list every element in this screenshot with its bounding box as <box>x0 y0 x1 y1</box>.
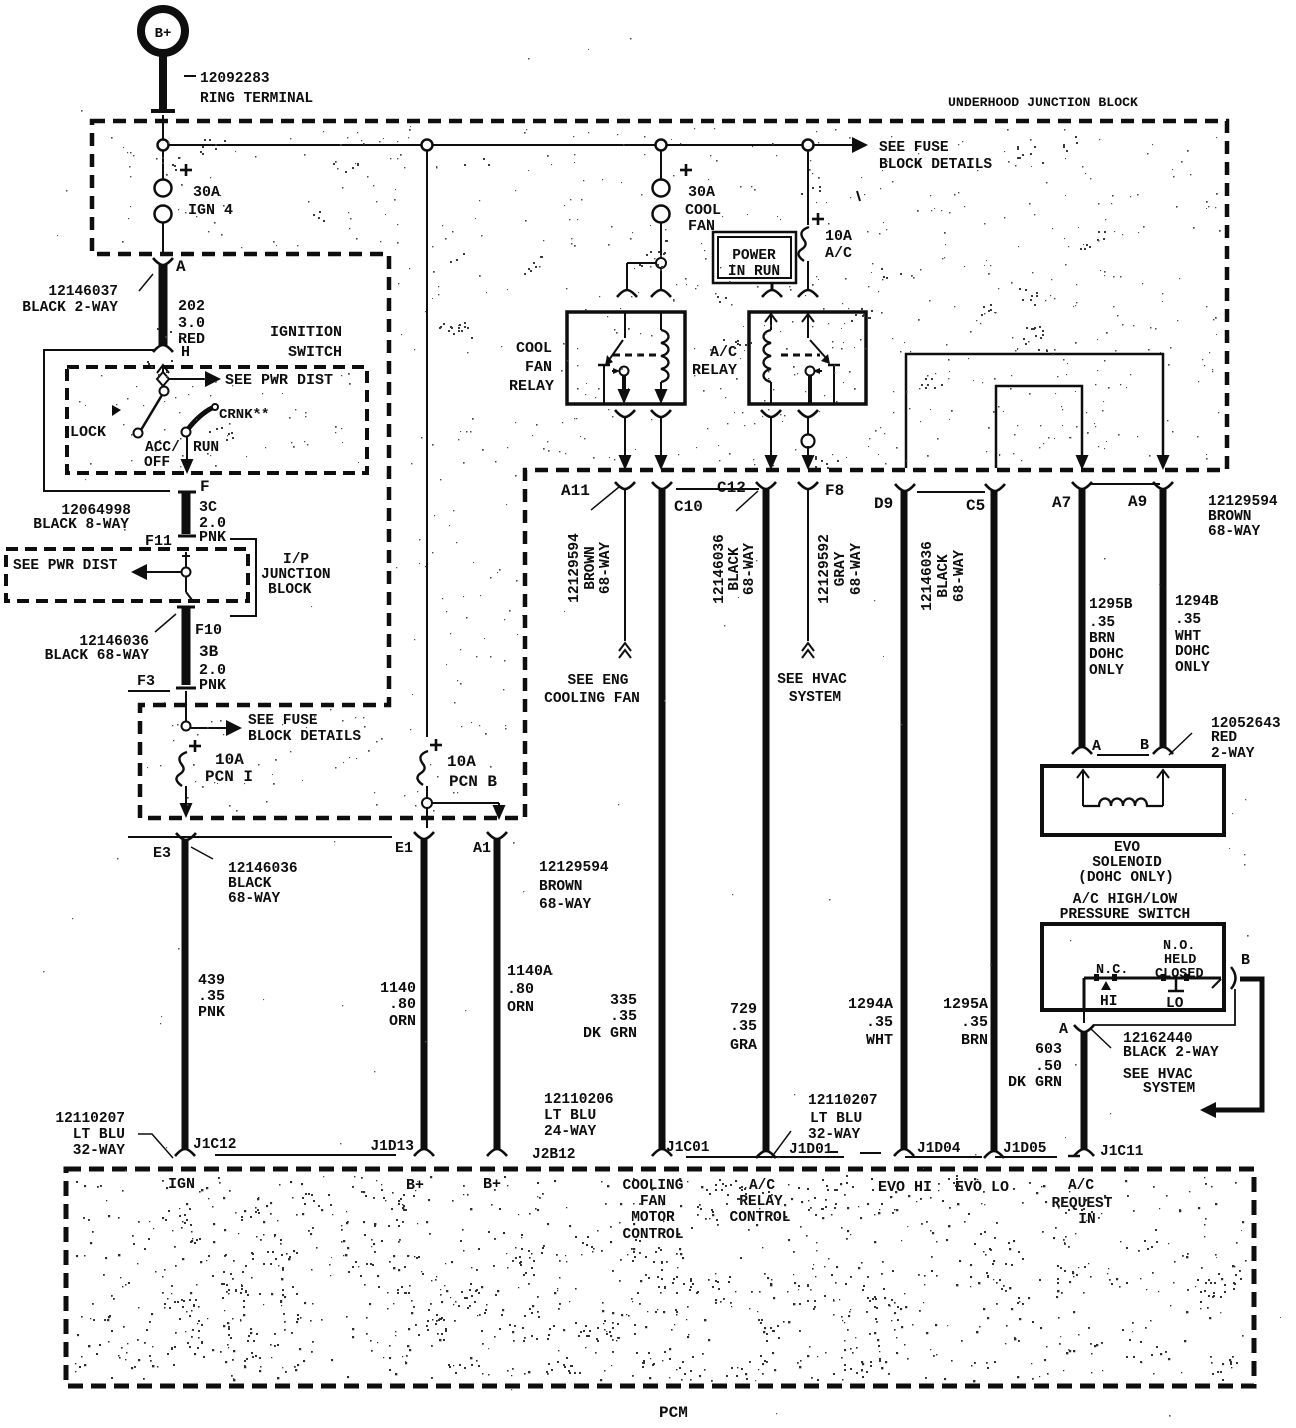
fuse 10A PCN B <box>430 744 442 747</box>
arrow SEE FUSE BLOCK DETAILS (PCN I) <box>191 727 226 729</box>
svg-text:1140: 1140 <box>380 980 416 997</box>
svg-text:EVO HI: EVO HI <box>878 1179 932 1196</box>
wire 603 .50 DK GRN <box>1081 1031 1088 1150</box>
connector E1 <box>414 832 434 839</box>
svg-text:.35: .35 <box>1175 612 1201 628</box>
svg-text:BLACK: BLACK <box>727 547 743 591</box>
svg-text:SEE FUSE: SEE FUSE <box>248 713 318 729</box>
wire 1295B BRN (A7) <box>1079 489 1086 748</box>
fuse 10A A/C <box>807 150 809 225</box>
svg-text:ORN: ORN <box>389 1013 416 1030</box>
svg-text:N.O.: N.O. <box>1163 939 1195 954</box>
contact ACC/OFF <box>134 429 143 438</box>
connector C5 <box>985 484 1005 491</box>
connector A9 <box>1153 482 1173 489</box>
EVO solenoid coil <box>1077 770 1089 778</box>
svg-text:JUNCTION: JUNCTION <box>261 567 331 583</box>
svg-text:J1C12: J1C12 <box>193 1137 237 1153</box>
svg-text:68-WAY: 68-WAY <box>598 542 614 595</box>
svg-text:LO: LO <box>1166 996 1184 1012</box>
svg-text:RED: RED <box>1211 730 1237 746</box>
connector A11 <box>615 482 635 489</box>
svg-text:12146036: 12146036 <box>228 861 298 877</box>
connector F8 <box>798 482 818 489</box>
svg-text:A11: A11 <box>561 482 590 500</box>
svg-text:68-WAY: 68-WAY <box>539 897 592 913</box>
svg-text:12110207: 12110207 <box>55 1111 125 1127</box>
svg-text:C5: C5 <box>966 497 985 515</box>
svg-text:SEE ENG: SEE ENG <box>568 673 629 689</box>
svg-text:2-WAY: 2-WAY <box>1211 746 1255 762</box>
fuse 10A PCN I <box>189 745 201 748</box>
svg-text:J1D04: J1D04 <box>917 1141 961 1157</box>
svg-text:SEE HVAC: SEE HVAC <box>777 672 847 688</box>
wire bus to PCN B fuse <box>426 150 428 737</box>
A/C high/low pressure switch box <box>1042 924 1224 1010</box>
svg-text:HI: HI <box>1100 994 1117 1010</box>
svg-text:1140A: 1140A <box>507 963 552 980</box>
node bus junction 3 <box>656 140 667 151</box>
svg-text:IGN: IGN <box>168 1176 195 1193</box>
svg-text:439: 439 <box>198 972 225 989</box>
svg-text:.50: .50 <box>1035 1058 1062 1075</box>
svg-text:32-WAY: 32-WAY <box>73 1143 126 1159</box>
svg-text:30A: 30A <box>688 184 715 201</box>
svg-text:RELAY: RELAY <box>692 362 737 379</box>
svg-text:MOTOR: MOTOR <box>631 1210 675 1226</box>
svg-text:RUN: RUN <box>193 440 219 456</box>
wire 1294B WHT (A9) <box>1160 489 1167 748</box>
svg-text:12146036: 12146036 <box>920 541 936 611</box>
svg-text:J1D05: J1D05 <box>1003 1141 1047 1157</box>
contact RUN + CRANK arm <box>182 428 191 437</box>
svg-text:BLACK: BLACK <box>228 876 272 892</box>
connector face 12162440 <box>1093 989 1235 1025</box>
svg-text:PRESSURE SWITCH: PRESSURE SWITCH <box>1060 907 1191 923</box>
svg-text:J1C11: J1C11 <box>1100 1144 1144 1160</box>
svg-text:1294B: 1294B <box>1175 594 1219 610</box>
connector E3 <box>176 833 196 840</box>
svg-text:WHT: WHT <box>1175 629 1201 645</box>
svg-text:HELD: HELD <box>1164 953 1196 968</box>
wire 335 DK GRN (C10) <box>659 489 666 1150</box>
cool fan relay coil <box>660 312 662 330</box>
svg-text:IN RUN: IN RUN <box>728 264 780 280</box>
svg-text:POWER: POWER <box>732 248 776 264</box>
ignition switch common node <box>157 372 169 386</box>
svg-text:UNDERHOOD JUNCTION BLOCK: UNDERHOOD JUNCTION BLOCK <box>948 95 1138 110</box>
svg-text:F3: F3 <box>137 673 155 690</box>
svg-text:RELAY: RELAY <box>509 378 554 395</box>
box POWER IN RUN <box>713 232 796 283</box>
svg-text:J1D13: J1D13 <box>370 1139 414 1155</box>
svg-text:ONLY: ONLY <box>1175 660 1210 676</box>
ignition switch box <box>67 367 367 473</box>
svg-text:SEE PWR DIST: SEE PWR DIST <box>225 372 333 389</box>
svg-text:A/C HIGH/LOW: A/C HIGH/LOW <box>1073 892 1178 908</box>
node bus junction 4 <box>803 140 814 151</box>
ignition switch wire entry <box>157 365 169 373</box>
svg-text:BLACK 2-WAY: BLACK 2-WAY <box>1123 1045 1219 1061</box>
svg-text:10A: 10A <box>825 228 852 245</box>
node bus junction 2 <box>422 140 433 151</box>
svg-text:B: B <box>1140 737 1149 754</box>
svg-text:1295A: 1295A <box>943 996 988 1013</box>
svg-text:68-WAY: 68-WAY <box>849 543 865 596</box>
svg-text:B+: B+ <box>406 1177 424 1194</box>
svg-text:1294A: 1294A <box>848 996 893 1013</box>
svg-text:B: B <box>1241 952 1250 969</box>
svg-text:GRA: GRA <box>730 1037 757 1054</box>
svg-text:LT BLU: LT BLU <box>810 1111 862 1127</box>
svg-text:12129592: 12129592 <box>817 534 833 604</box>
svg-text:DK GRN: DK GRN <box>583 1025 637 1042</box>
svg-text:J1D01: J1D01 <box>789 1142 833 1158</box>
svg-text:.80: .80 <box>389 996 416 1013</box>
svg-text:3C: 3C <box>199 499 217 516</box>
svg-text:BLACK 8-WAY: BLACK 8-WAY <box>33 517 129 533</box>
svg-text:CONTROL: CONTROL <box>623 1227 684 1243</box>
svg-text:12129594: 12129594 <box>1208 494 1278 510</box>
svg-text:68-WAY: 68-WAY <box>228 891 281 907</box>
svg-text:.35: .35 <box>730 1018 757 1035</box>
pin J1D04 EVO HI <box>830 1151 838 1153</box>
svg-text:CONTROL: CONTROL <box>730 1210 791 1226</box>
svg-text:A7: A7 <box>1052 494 1071 512</box>
svg-text:3B: 3B <box>199 643 219 661</box>
svg-text:12146036: 12146036 <box>712 534 728 604</box>
svg-text:BLOCK DETAILS: BLOCK DETAILS <box>879 157 992 173</box>
node PCN B junction <box>426 786 428 798</box>
connector A 12146037 BLACK 2-WAY <box>153 258 173 265</box>
svg-text:3.0: 3.0 <box>178 315 205 332</box>
bracket left of ignition switch <box>44 350 170 491</box>
jumper wire D9 to A9 <box>906 354 1163 468</box>
svg-text:12092283: 12092283 <box>200 71 270 87</box>
svg-text:LT BLU: LT BLU <box>544 1108 596 1124</box>
svg-text:SYSTEM: SYSTEM <box>1143 1081 1195 1097</box>
cool fan relay switch <box>624 312 626 338</box>
svg-text:335: 335 <box>610 992 637 1009</box>
svg-text:GRAY: GRAY <box>833 551 849 586</box>
ring terminal B+ <box>141 9 185 53</box>
svg-text:SEE PWR DIST: SEE PWR DIST <box>13 558 118 574</box>
svg-text:CRNK**: CRNK** <box>219 407 269 423</box>
a/c relay switch <box>802 314 814 322</box>
svg-text:H: H <box>181 344 190 361</box>
svg-text:J1C01: J1C01 <box>666 1140 710 1156</box>
svg-text:12146037: 12146037 <box>48 284 118 300</box>
connector C12 <box>756 482 776 489</box>
underhood junction block outline <box>92 121 1227 818</box>
svg-text:A/C: A/C <box>825 245 852 262</box>
svg-text:BLACK 68-WAY: BLACK 68-WAY <box>45 648 150 664</box>
svg-text:SYSTEM: SYSTEM <box>789 690 841 706</box>
svg-text:30A: 30A <box>193 184 220 201</box>
svg-text:BLOCK: BLOCK <box>268 582 312 598</box>
wire B+ bus <box>163 144 852 146</box>
svg-text:COOL: COOL <box>516 340 552 357</box>
svg-text:SOLENOID: SOLENOID <box>1092 855 1162 871</box>
arrow SEE FUSE BLOCK DETAILS <box>852 137 868 153</box>
cool fan relay lower pins <box>615 410 635 417</box>
wire B to SEE HVAC SYSTEM <box>1212 979 1262 1110</box>
wire 439 .35 PNK <box>182 839 189 1150</box>
svg-text:LT BLU: LT BLU <box>73 1127 125 1143</box>
svg-text:RELAY: RELAY <box>739 1194 783 1210</box>
svg-text:FAN: FAN <box>640 1194 666 1210</box>
wire F8 SEE HVAC SYSTEM <box>807 489 809 641</box>
wire 1294A WHT (D9) <box>901 491 908 1150</box>
svg-text:729: 729 <box>730 1001 757 1018</box>
svg-text:E1: E1 <box>395 840 413 857</box>
a/c relay lower pins <box>761 410 781 417</box>
a/c relay actuator link <box>781 354 820 357</box>
I/P internal wire <box>185 552 187 592</box>
svg-text:24-WAY: 24-WAY <box>544 1124 597 1140</box>
svg-text:.35: .35 <box>866 1014 893 1031</box>
svg-text:A/C: A/C <box>710 344 737 361</box>
jumper wire C5 to A7 <box>996 386 1082 468</box>
svg-text:DOHC: DOHC <box>1089 647 1124 663</box>
EVO solenoid box <box>1042 766 1224 835</box>
wire F3 to fuse <box>185 691 187 721</box>
wire 1140 .80 ORN <box>421 838 428 1150</box>
svg-text:I/P: I/P <box>283 552 309 568</box>
svg-text:FAN: FAN <box>688 218 715 235</box>
svg-text:DOHC: DOHC <box>1175 644 1210 660</box>
svg-text:.35: .35 <box>961 1014 988 1031</box>
svg-text:12129594: 12129594 <box>539 860 609 876</box>
svg-text:BROWN: BROWN <box>1208 509 1252 525</box>
svg-text:.80: .80 <box>507 981 534 998</box>
arrow SEE PWR DIST (ignition) <box>169 378 205 380</box>
svg-text:PNK: PNK <box>199 677 226 694</box>
svg-text:F8: F8 <box>825 482 844 500</box>
svg-text:BROWN: BROWN <box>583 546 599 590</box>
svg-text:68-WAY: 68-WAY <box>952 550 968 603</box>
cool fan relay actuator link <box>613 354 658 357</box>
svg-text:E3: E3 <box>153 845 171 862</box>
ignition switch wiper <box>160 387 169 396</box>
svg-text:ORN: ORN <box>507 999 534 1016</box>
svg-text:A1: A1 <box>473 840 491 857</box>
svg-text:COOLING FAN: COOLING FAN <box>544 691 640 707</box>
svg-text:COOLING: COOLING <box>623 1178 684 1194</box>
connector C10 <box>652 482 672 489</box>
svg-text:PNK: PNK <box>198 1004 225 1021</box>
svg-text:COOL: COOL <box>685 202 721 219</box>
node PCN I tap <box>182 722 191 731</box>
svg-text:BLOCK DETAILS: BLOCK DETAILS <box>248 729 361 745</box>
wire RUN to F <box>186 437 188 462</box>
wire A11 SEE ENG COOLING FAN <box>624 489 626 641</box>
svg-text:10A: 10A <box>215 751 244 769</box>
svg-text:OFF: OFF <box>144 455 170 471</box>
connector A7 <box>1072 482 1092 489</box>
svg-text:BRN: BRN <box>1089 631 1115 647</box>
label I/P JUNCTION BLOCK <box>230 539 256 616</box>
svg-text:SWITCH: SWITCH <box>288 344 342 361</box>
svg-text:C12: C12 <box>717 479 746 497</box>
svg-text:A/C: A/C <box>1068 1178 1094 1194</box>
svg-text:IGN 4: IGN 4 <box>188 202 233 219</box>
label 12162440 BLACK 2-WAY <box>1090 1028 1111 1048</box>
svg-text:.35: .35 <box>1089 615 1115 631</box>
svg-text:68-WAY: 68-WAY <box>742 543 758 596</box>
svg-text:12110206: 12110206 <box>544 1092 614 1108</box>
svg-text:10A: 10A <box>447 753 476 771</box>
svg-text:F10: F10 <box>195 622 222 639</box>
label 12146036 BLACK 68-WAY (E3) <box>191 847 213 859</box>
svg-text:LOCK: LOCK <box>70 424 106 441</box>
svg-text:ONLY: ONLY <box>1089 663 1124 679</box>
svg-text:12129594: 12129594 <box>567 533 583 603</box>
svg-text:F: F <box>200 478 210 496</box>
svg-text:IGNITION: IGNITION <box>270 324 342 341</box>
svg-text:C10: C10 <box>674 498 703 516</box>
connector D9 <box>895 484 915 491</box>
wire B+ feed from ring terminal <box>162 115 164 141</box>
svg-text:WHT: WHT <box>866 1032 893 1049</box>
connector A1 <box>487 832 507 839</box>
svg-text:ACC/: ACC/ <box>145 440 180 456</box>
svg-text:EVO LO: EVO LO <box>955 1179 1009 1196</box>
svg-text:PCN B: PCN B <box>449 773 497 791</box>
svg-text:202: 202 <box>178 298 205 315</box>
connector row line (E-row) <box>128 836 392 838</box>
svg-text:BLACK 2-WAY: BLACK 2-WAY <box>22 300 118 316</box>
svg-text:B+: B+ <box>483 1176 501 1193</box>
svg-text:1295B: 1295B <box>1089 597 1133 613</box>
svg-text:PCN I: PCN I <box>205 768 253 786</box>
svg-text:BRN: BRN <box>961 1032 988 1049</box>
svg-text:PNK: PNK <box>199 529 226 546</box>
svg-text:32-WAY: 32-WAY <box>808 1127 861 1143</box>
svg-text:.35: .35 <box>610 1008 637 1025</box>
fuse 30A IGN 4 <box>162 150 164 179</box>
pressure switch inner frame <box>1084 977 1221 980</box>
svg-text:603: 603 <box>1035 1041 1062 1058</box>
svg-text:A9: A9 <box>1128 493 1147 511</box>
wire PCN B to A1 <box>432 802 499 804</box>
svg-text:68-WAY: 68-WAY <box>1208 524 1261 540</box>
svg-text:BROWN: BROWN <box>539 879 583 895</box>
label 12092283 RING TERMINAL <box>184 75 196 77</box>
svg-text:EVO: EVO <box>1114 840 1140 856</box>
wire 1295A BRN (C5) <box>991 491 998 1152</box>
svg-text:.35: .35 <box>198 988 225 1005</box>
svg-text:D9: D9 <box>874 495 893 513</box>
svg-text:SEE FUSE: SEE FUSE <box>879 140 949 156</box>
wire 3B 2.0 PNK <box>177 606 195 609</box>
svg-text:FAN: FAN <box>525 359 552 376</box>
svg-text:RING TERMINAL: RING TERMINAL <box>200 91 313 107</box>
PCM box <box>66 1169 1254 1386</box>
svg-text:A: A <box>1092 738 1101 755</box>
wire 1140A .80 ORN <box>494 838 501 1150</box>
svg-text:PCM: PCM <box>659 1404 688 1422</box>
svg-text:A: A <box>1059 1021 1068 1038</box>
svg-text:BLACK: BLACK <box>936 554 952 598</box>
svg-text:B+: B+ <box>155 26 172 42</box>
node bus junction 1 <box>158 140 169 151</box>
svg-text:12110207: 12110207 <box>808 1093 878 1109</box>
svg-text:(DOHC ONLY): (DOHC ONLY) <box>1078 870 1174 886</box>
node cool fan relay feed <box>656 258 666 268</box>
I/P junction block box <box>6 549 248 601</box>
wire 202 3.0 RED <box>159 264 168 346</box>
svg-text:A: A <box>176 258 186 276</box>
svg-text:A/C: A/C <box>749 1178 775 1194</box>
wire 729 GRA (C12) <box>763 489 770 1152</box>
fuse 30A COOL FAN <box>660 150 662 179</box>
svg-text:J2B12: J2B12 <box>532 1147 576 1163</box>
svg-text:DK GRN: DK GRN <box>1008 1074 1062 1091</box>
a/c relay coil <box>765 314 777 322</box>
